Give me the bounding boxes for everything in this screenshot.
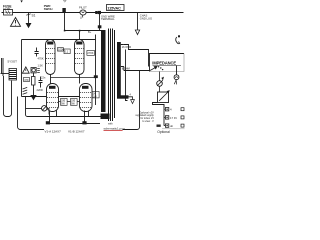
svg-text:SWCH: SWCH — [44, 7, 53, 11]
frame line under terminals — [162, 128, 185, 130]
wire to stack — [1, 73, 10, 75]
labels between V1 V2 — [58, 47, 71, 53]
red link — [104, 126, 125, 130]
transformer primary bar — [101, 30, 106, 112]
svg-text:TERMINAL: TERMINAL — [101, 17, 115, 21]
transformer core lines — [109, 29, 115, 122]
wire 8ohm tap to selector and bottom frame — [123, 67, 125, 71]
svg-text:S1: S1 — [32, 14, 36, 18]
svg-text:B+: B+ — [88, 30, 92, 34]
wire drop right with open arrow — [135, 13, 139, 35]
wire drop from node A — [64, 13, 66, 31]
svg-text:LP: LP — [80, 16, 83, 20]
svg-text:5W: 5W — [71, 103, 75, 106]
terminal bracket — [163, 105, 165, 126]
left U loop — [4, 76, 12, 117]
optional label — [157, 130, 170, 134]
optional note text — [135, 111, 154, 122]
warning triangle 2 — [22, 67, 29, 73]
wire main AC line — [2, 12, 184, 14]
svg-text:Optional: Optional — [157, 130, 170, 134]
svg-text:ob: ob — [170, 124, 174, 128]
junction blob on B+ line — [94, 75, 98, 78]
lamp on right edge — [174, 66, 179, 85]
bus1 drop — [26, 97, 101, 117]
secondary down arrow — [129, 97, 133, 100]
secondary bottom stub — [117, 95, 129, 98]
svg-text:5Y3GT: 5Y3GT — [8, 60, 18, 64]
svg-text:PILOT: PILOT — [79, 6, 87, 10]
capacitor C — [39, 77, 43, 88]
tube V3 — [47, 84, 59, 112]
svg-text:5W: 5W — [61, 103, 65, 106]
phone jack — [176, 35, 180, 44]
tube V2 — [75, 31, 85, 75]
label right of V4 — [92, 92, 99, 99]
hum pot — [26, 106, 50, 115]
wire left pair — [2, 58, 4, 76]
fuse F1 — [4, 10, 13, 16]
tap 4 label — [130, 94, 132, 97]
outer loop left — [18, 97, 45, 130]
tube V1 — [46, 40, 56, 75]
secondary right wire — [126, 50, 128, 101]
secondary taps — [121, 45, 124, 67]
svg-text:470K: 470K — [38, 57, 44, 61]
svg-text:1.5K: 1.5K — [38, 63, 44, 67]
pot circle — [157, 72, 164, 93]
svg-text:with: with — [108, 122, 113, 126]
fuse label text — [3, 5, 12, 12]
transformer foot — [101, 114, 110, 120]
svg-text:IMPEDANCE: IMPEDANCE — [152, 60, 176, 65]
svg-text:270K: 270K — [87, 51, 93, 55]
svg-text:220R: 220R — [37, 88, 43, 92]
lamp labels — [79, 6, 87, 20]
lamp PL1 — [80, 10, 86, 15]
svg-text:V1-A 12AX7: V1-A 12AX7 — [45, 130, 62, 134]
bus2 — [46, 123, 100, 125]
svg-text:17 IN: 17 IN — [170, 116, 177, 120]
svg-text:0.1: 0.1 — [65, 50, 69, 54]
svg-text:1W: 1W — [93, 96, 97, 99]
wire rheostat to terminals — [153, 103, 165, 108]
svg-text:115VAC: 115VAC — [107, 6, 121, 11]
filter cap mid-box — [35, 48, 39, 57]
svg-text:3A SB: 3A SB — [3, 8, 10, 11]
tube label 5Y3 — [8, 60, 18, 64]
right note text — [140, 14, 152, 21]
box PSU outline — [21, 40, 23, 97]
junction tick — [95, 11, 97, 14]
rectifier square with circle — [31, 68, 40, 73]
svg-text:schematic1.png: schematic1.png — [104, 126, 125, 130]
impedance box — [150, 54, 185, 72]
label right of V2 — [87, 51, 95, 56]
text block power note — [44, 4, 53, 11]
terminal labels — [170, 108, 177, 128]
multi-section capacitor stack — [9, 69, 17, 81]
svg-text:16 OHM: 16 OHM — [122, 46, 131, 49]
switch label — [32, 14, 36, 18]
transformer left line — [95, 35, 97, 106]
selector switch — [124, 66, 164, 70]
resistor vertical — [32, 73, 36, 89]
terminal row3 stub — [157, 125, 161, 127]
wire secondary to selector — [124, 45, 149, 67]
power switch chassis arrow — [26, 13, 30, 28]
wire drop to transformer primary — [99, 13, 101, 31]
bottom tube list text — [45, 130, 85, 134]
small marker top left — [20, 0, 22, 2]
wire cross — [50, 75, 52, 84]
transformer secondary bar — [117, 42, 121, 98]
bus B+ — [65, 30, 102, 32]
column labels left of tube — [37, 57, 46, 93]
svg-text:22n: 22n — [41, 76, 46, 80]
ground arrow — [31, 89, 36, 100]
marker arrow above — [63, 0, 66, 2]
label box 115VAC — [107, 5, 125, 11]
junction node A — [62, 8, 65, 13]
impedance label — [152, 60, 176, 65]
labels between V3 V4 — [59, 99, 80, 106]
gnd wire text — [101, 14, 115, 21]
tube V4 — [80, 84, 93, 112]
tube bottom leads — [49, 111, 51, 124]
svg-text:to view . V: to view . V — [142, 120, 154, 123]
rheostat box — [158, 91, 170, 103]
hatch marks — [23, 87, 28, 94]
terminal squares — [165, 108, 168, 128]
note above link — [108, 122, 113, 126]
svg-text:100K: 100K — [58, 47, 64, 51]
label under triangle — [24, 78, 30, 82]
right terminal column — [181, 108, 184, 127]
svg-text:V1-B 12AX7: V1-B 12AX7 — [68, 130, 85, 134]
svg-text:GND LUG: GND LUG — [140, 16, 152, 20]
warning triangle W1 — [11, 18, 21, 27]
svg-text:47K: 47K — [24, 78, 29, 82]
